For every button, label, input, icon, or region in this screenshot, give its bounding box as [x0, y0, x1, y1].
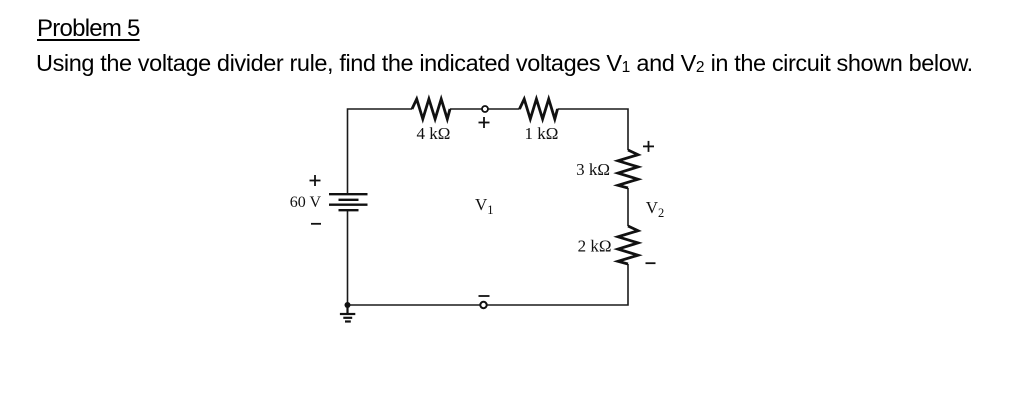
svg-text:3 kΩ: 3 kΩ	[576, 160, 610, 179]
wire R3 to R4	[627, 188, 629, 226]
wire top-left to R1	[348, 109, 413, 194]
resistor R3 3 kOhm (vertical)	[618, 150, 638, 188]
battery V source 60 V	[329, 194, 368, 210]
terminal node circle top (V1 +)	[482, 106, 488, 112]
terminal node circle bottom (V1 -)	[480, 302, 486, 308]
svg-text:2 kΩ: 2 kΩ	[578, 237, 612, 256]
svg-text:V1: V1	[475, 195, 494, 217]
plus sign V2 top	[643, 141, 654, 152]
title: Problem 5	[37, 15, 140, 43]
battery minus sign	[311, 223, 321, 225]
resistor R1 4 kOhm	[412, 99, 450, 119]
resistor R2 1 kOhm	[520, 99, 558, 119]
wire R4 to bottom-right corner to bottom-left	[348, 264, 629, 305]
svg-text:4 kΩ: 4 kΩ	[417, 124, 451, 143]
svg-text:1 kΩ: 1 kΩ	[525, 124, 559, 143]
minus sign at bottom node	[479, 295, 490, 297]
ground	[340, 305, 355, 322]
junction dot bottom-left	[345, 302, 351, 308]
wire battery bottom to bottom-left corner	[347, 210, 349, 305]
resistor R4 2 kOhm (vertical)	[618, 226, 638, 264]
wire R2 to top-right corner and down to R3	[558, 109, 629, 150]
problem statement text	[36, 50, 973, 77]
svg-text:60 V: 60 V	[290, 194, 322, 211]
minus sign V2 bottom	[646, 262, 656, 264]
wire R1 to R2	[450, 108, 520, 110]
plus sign at top node	[479, 117, 490, 128]
svg-text:V2: V2	[646, 198, 665, 220]
battery plus sign	[310, 175, 321, 186]
